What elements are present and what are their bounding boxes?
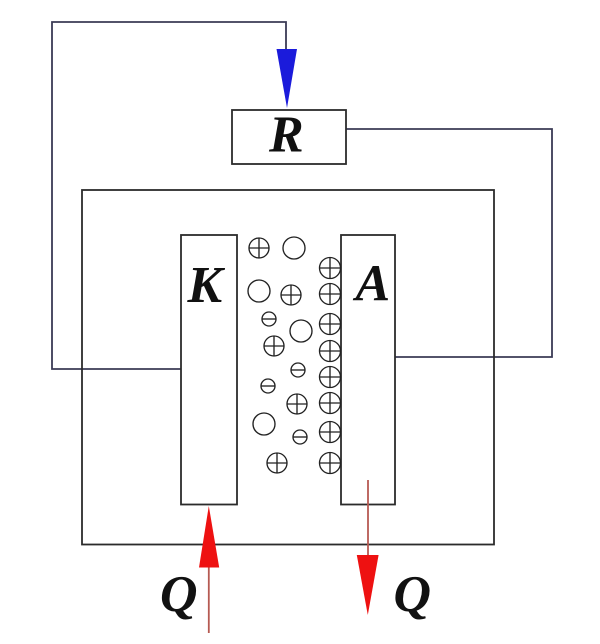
positive ion at anode [320, 393, 341, 414]
cathode plate K [181, 235, 237, 505]
positive ion [264, 336, 284, 356]
positive ion [281, 285, 301, 305]
radiation beam line exiting at A [367, 480, 369, 556]
svg-text:K: K [187, 257, 226, 314]
positive ion at anode [320, 314, 341, 335]
positive ion [249, 238, 269, 258]
negative ion (electron) [291, 363, 305, 377]
svg-text:Q: Q [160, 566, 198, 623]
svg-text:R: R [268, 107, 304, 164]
neutral molecule [290, 320, 312, 342]
radiation arrow down at A [357, 555, 379, 615]
radiation beam line entering at K [208, 567, 210, 633]
neutral molecule [283, 237, 305, 259]
radiation arrow up at K [199, 506, 219, 568]
positive ion at anode [320, 284, 341, 305]
neutral molecule [253, 413, 275, 435]
positive ion at anode [320, 258, 341, 279]
negative ion (electron) [293, 430, 307, 444]
neutral molecule [248, 280, 270, 302]
positive ion [267, 453, 287, 473]
chamber enclosure [82, 190, 494, 545]
anode plate A [341, 235, 395, 505]
wire left loop from cathode K to resistor R [52, 22, 286, 369]
resistor R box [232, 110, 346, 164]
svg-text:Q: Q [394, 566, 432, 623]
wire right loop from resistor R to anode A [346, 129, 552, 357]
negative ion (electron) [261, 379, 275, 393]
svg-text:A: A [353, 256, 391, 313]
positive ion at anode [320, 453, 341, 474]
positive ion [287, 394, 307, 414]
blue current arrow into R [277, 49, 298, 108]
negative ion (electron) [262, 312, 276, 326]
positive ion at anode [320, 341, 341, 362]
positive ion at anode [320, 422, 341, 443]
positive ion at anode [320, 367, 341, 388]
